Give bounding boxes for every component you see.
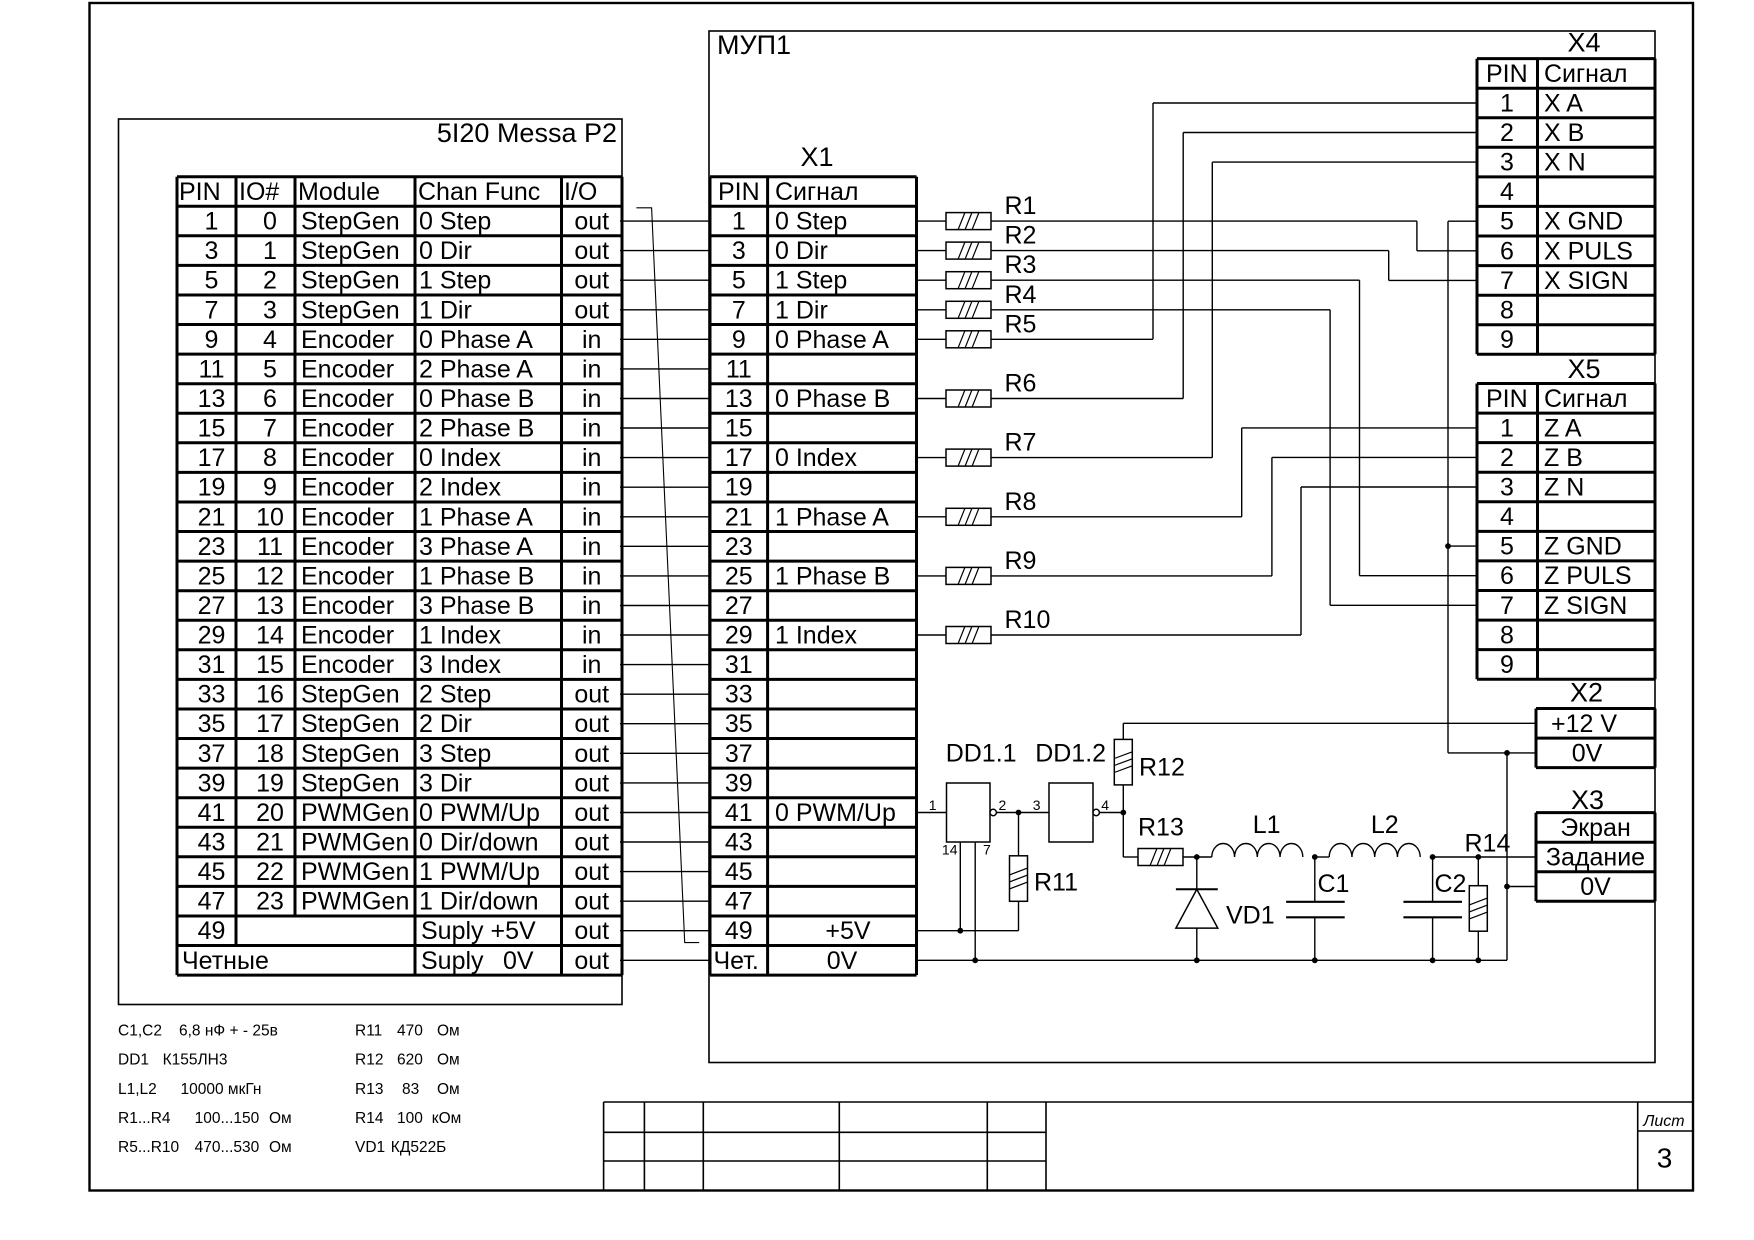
svg-text:27: 27 bbox=[198, 592, 226, 620]
svg-text:StepGen: StepGen bbox=[301, 681, 400, 709]
svg-text:41: 41 bbox=[198, 799, 226, 827]
svg-text:X5: X5 bbox=[1567, 354, 1600, 384]
svg-text:PWMGen: PWMGen bbox=[301, 829, 409, 857]
svg-text:StepGen: StepGen bbox=[301, 710, 400, 738]
svg-text:Ом: Ом bbox=[437, 1052, 460, 1069]
svg-text:PIN: PIN bbox=[179, 178, 221, 206]
svg-text:out: out bbox=[574, 710, 609, 738]
svg-text:I/O: I/O bbox=[564, 178, 597, 206]
svg-text:PIN: PIN bbox=[718, 178, 760, 206]
svg-text:X3: X3 bbox=[1571, 785, 1604, 815]
svg-text:10000 мкГн: 10000 мкГн bbox=[181, 1081, 262, 1098]
svg-text:14: 14 bbox=[942, 842, 958, 858]
svg-text:out: out bbox=[574, 769, 609, 797]
svg-text:R6: R6 bbox=[1005, 370, 1037, 398]
svg-text:C2: C2 bbox=[1435, 870, 1467, 898]
svg-text:StepGen: StepGen bbox=[301, 237, 400, 265]
svg-text:1: 1 bbox=[205, 208, 219, 236]
svg-text:3 Phase A: 3 Phase A bbox=[419, 533, 533, 561]
svg-text:17: 17 bbox=[725, 444, 753, 472]
svg-text:in: in bbox=[582, 385, 601, 413]
svg-text:0 Dir: 0 Dir bbox=[775, 237, 828, 265]
svg-text:out: out bbox=[574, 947, 609, 975]
svg-text:Encoder: Encoder bbox=[301, 444, 394, 472]
svg-text:Z N: Z N bbox=[1544, 474, 1584, 502]
svg-text:PIN: PIN bbox=[1486, 385, 1528, 413]
svg-text:2 Phase B: 2 Phase B bbox=[419, 415, 534, 443]
svg-text:PWMGen: PWMGen bbox=[301, 799, 409, 827]
svg-text:17: 17 bbox=[256, 710, 284, 738]
svg-text:X SIGN: X SIGN bbox=[1544, 267, 1629, 295]
svg-text:L2: L2 bbox=[1371, 811, 1399, 839]
svg-text:in: in bbox=[582, 355, 601, 383]
svg-text:2 Phase A: 2 Phase A bbox=[419, 355, 533, 383]
svg-text:out: out bbox=[574, 888, 609, 916]
svg-text:DD1.1: DD1.1 bbox=[946, 740, 1017, 768]
svg-text:0 Index: 0 Index bbox=[419, 444, 502, 472]
svg-text:19: 19 bbox=[256, 769, 284, 797]
svg-text:37: 37 bbox=[725, 740, 753, 768]
svg-text:in: in bbox=[582, 503, 601, 531]
svg-text:22: 22 bbox=[256, 858, 284, 886]
svg-text:4: 4 bbox=[1101, 797, 1109, 813]
svg-text:21: 21 bbox=[198, 503, 226, 531]
svg-text:Ом: Ом bbox=[269, 1139, 292, 1156]
svg-text:Encoder: Encoder bbox=[301, 562, 394, 590]
svg-text:L1: L1 bbox=[1253, 811, 1281, 839]
svg-text:39: 39 bbox=[725, 769, 753, 797]
svg-text:15: 15 bbox=[198, 415, 226, 443]
svg-text:2: 2 bbox=[999, 797, 1007, 813]
svg-text:R13: R13 bbox=[1138, 814, 1184, 842]
svg-text:Encoder: Encoder bbox=[301, 592, 394, 620]
svg-text:DD1: DD1 bbox=[118, 1052, 149, 1069]
svg-text:21: 21 bbox=[725, 503, 753, 531]
svg-text:R7: R7 bbox=[1005, 429, 1037, 457]
svg-text:2: 2 bbox=[1500, 119, 1514, 147]
svg-text:in: in bbox=[582, 592, 601, 620]
svg-text:StepGen: StepGen bbox=[301, 296, 400, 324]
svg-text:1 PWM/Up: 1 PWM/Up bbox=[419, 858, 540, 886]
svg-text:33: 33 bbox=[725, 681, 753, 709]
svg-text:R5: R5 bbox=[1005, 310, 1037, 338]
svg-text:PWMGen: PWMGen bbox=[301, 888, 409, 916]
svg-text:16: 16 bbox=[256, 681, 284, 709]
svg-text:0 Phase B: 0 Phase B bbox=[419, 385, 534, 413]
svg-text:out: out bbox=[574, 858, 609, 886]
svg-text:9: 9 bbox=[732, 326, 746, 354]
svg-text:Suply: Suply bbox=[421, 947, 484, 975]
svg-text:X PULS: X PULS bbox=[1544, 237, 1633, 265]
svg-text:out: out bbox=[574, 267, 609, 295]
svg-text:PIN: PIN bbox=[1486, 60, 1528, 88]
svg-text:0 Dir: 0 Dir bbox=[419, 237, 472, 265]
svg-text:VD1: VD1 bbox=[355, 1139, 385, 1156]
svg-text:13: 13 bbox=[725, 385, 753, 413]
svg-text:Module: Module bbox=[298, 178, 380, 206]
svg-text:0 Step: 0 Step bbox=[419, 208, 491, 236]
svg-text:11: 11 bbox=[726, 355, 752, 383]
svg-text:Z SIGN: Z SIGN bbox=[1544, 592, 1627, 620]
svg-text:10: 10 bbox=[256, 503, 284, 531]
svg-text:R11: R11 bbox=[355, 1023, 382, 1040]
svg-text:45: 45 bbox=[198, 858, 226, 886]
svg-text:Encoder: Encoder bbox=[301, 385, 394, 413]
svg-text:X B: X B bbox=[1544, 119, 1584, 147]
svg-text:9: 9 bbox=[205, 326, 219, 354]
svg-text:3 Dir: 3 Dir bbox=[419, 769, 472, 797]
svg-text:in: in bbox=[582, 326, 601, 354]
svg-text:R1: R1 bbox=[1005, 192, 1037, 220]
svg-text:470: 470 bbox=[397, 1023, 423, 1040]
svg-text:3: 3 bbox=[1500, 149, 1514, 177]
svg-text:in: in bbox=[582, 622, 601, 650]
svg-text:100...150: 100...150 bbox=[195, 1110, 260, 1127]
svg-text:R14: R14 bbox=[355, 1110, 384, 1127]
svg-text:StepGen: StepGen bbox=[301, 208, 400, 236]
svg-text:МУП1: МУП1 bbox=[717, 30, 791, 60]
svg-text:Z PULS: Z PULS bbox=[1544, 562, 1632, 590]
svg-text:0 PWM/Up: 0 PWM/Up bbox=[775, 799, 896, 827]
svg-text:11: 11 bbox=[199, 355, 225, 383]
svg-text:3: 3 bbox=[263, 296, 277, 324]
svg-text:3 Step: 3 Step bbox=[419, 740, 491, 768]
svg-text:2: 2 bbox=[263, 267, 277, 295]
svg-text:Encoder: Encoder bbox=[301, 355, 394, 383]
svg-text:31: 31 bbox=[198, 651, 226, 679]
svg-text:Encoder: Encoder bbox=[301, 474, 394, 502]
svg-text:R8: R8 bbox=[1005, 488, 1037, 516]
svg-text:Сигнал: Сигнал bbox=[1544, 60, 1627, 88]
svg-text:0 Phase B: 0 Phase B bbox=[775, 385, 890, 413]
svg-text:41: 41 bbox=[725, 799, 753, 827]
svg-text:0V: 0V bbox=[1572, 739, 1603, 767]
svg-text:5: 5 bbox=[205, 267, 219, 295]
svg-text:1: 1 bbox=[263, 237, 277, 265]
svg-text:PWMGen: PWMGen bbox=[301, 858, 409, 886]
svg-text:470...530: 470...530 bbox=[195, 1139, 260, 1156]
svg-text:Encoder: Encoder bbox=[301, 533, 394, 561]
svg-text:9: 9 bbox=[1500, 326, 1514, 354]
svg-text:2: 2 bbox=[1500, 444, 1514, 472]
svg-text:18: 18 bbox=[256, 740, 284, 768]
svg-text:11: 11 bbox=[257, 533, 283, 561]
svg-text:3: 3 bbox=[1033, 797, 1041, 813]
svg-text:1 Phase A: 1 Phase A bbox=[419, 503, 533, 531]
svg-text:in: in bbox=[582, 415, 601, 443]
svg-text:29: 29 bbox=[198, 622, 226, 650]
svg-text:19: 19 bbox=[725, 474, 753, 502]
svg-text:Encoder: Encoder bbox=[301, 326, 394, 354]
svg-text:Ом: Ом bbox=[437, 1081, 460, 1098]
svg-text:Encoder: Encoder bbox=[301, 503, 394, 531]
svg-text:0: 0 bbox=[263, 208, 277, 236]
svg-text:9: 9 bbox=[1500, 651, 1514, 679]
svg-text:9: 9 bbox=[263, 474, 277, 502]
svg-text:1 Dir/down: 1 Dir/down bbox=[419, 888, 539, 916]
svg-text:Чет.: Чет. bbox=[714, 947, 759, 975]
svg-text:in: in bbox=[582, 533, 601, 561]
svg-text:14: 14 bbox=[256, 622, 284, 650]
svg-text:C1,C2: C1,C2 bbox=[118, 1023, 162, 1040]
svg-text:0 Index: 0 Index bbox=[775, 444, 858, 472]
svg-text:in: in bbox=[582, 474, 601, 502]
svg-text:R12: R12 bbox=[355, 1052, 383, 1069]
svg-text:17: 17 bbox=[198, 444, 226, 472]
svg-text:VD1: VD1 bbox=[1226, 902, 1275, 930]
svg-text:IO#: IO# bbox=[239, 178, 279, 206]
svg-text:1: 1 bbox=[1500, 414, 1514, 442]
svg-text:1 Phase B: 1 Phase B bbox=[419, 562, 534, 590]
svg-text:31: 31 bbox=[725, 651, 753, 679]
svg-text:4: 4 bbox=[263, 326, 277, 354]
svg-text:21: 21 bbox=[256, 829, 284, 857]
svg-text:19: 19 bbox=[198, 474, 226, 502]
svg-text:23: 23 bbox=[725, 533, 753, 561]
svg-text:X N: X N bbox=[1544, 149, 1586, 177]
svg-text:0 Phase A: 0 Phase A bbox=[775, 326, 889, 354]
svg-text:3: 3 bbox=[1500, 474, 1514, 502]
svg-text:6: 6 bbox=[1500, 562, 1514, 590]
svg-text:7: 7 bbox=[205, 296, 219, 324]
svg-text:7: 7 bbox=[983, 842, 991, 858]
svg-text:1 Step: 1 Step bbox=[775, 267, 847, 295]
svg-text:R11: R11 bbox=[1034, 869, 1078, 897]
svg-text:Ом: Ом bbox=[269, 1110, 292, 1127]
svg-text:Encoder: Encoder bbox=[301, 415, 394, 443]
svg-text:1 Dir: 1 Dir bbox=[775, 296, 828, 324]
svg-text:Сигнал: Сигнал bbox=[775, 178, 858, 206]
svg-text:5: 5 bbox=[1500, 208, 1514, 236]
svg-text:49: 49 bbox=[725, 917, 753, 945]
svg-text:23: 23 bbox=[256, 888, 284, 916]
svg-text:out: out bbox=[574, 829, 609, 857]
svg-text:2 Step: 2 Step bbox=[419, 681, 491, 709]
svg-text:Экран: Экран bbox=[1560, 814, 1631, 842]
svg-text:0V: 0V bbox=[1580, 873, 1611, 901]
svg-text:15: 15 bbox=[725, 415, 753, 443]
svg-text:R1...R4: R1...R4 bbox=[118, 1110, 171, 1127]
svg-text:+12 V: +12 V bbox=[1551, 710, 1617, 738]
svg-text:7: 7 bbox=[263, 415, 277, 443]
svg-text:7: 7 bbox=[1500, 592, 1514, 620]
svg-text:out: out bbox=[574, 740, 609, 768]
svg-text:out: out bbox=[574, 296, 609, 324]
svg-text:45: 45 bbox=[725, 858, 753, 886]
svg-text:R14: R14 bbox=[1465, 830, 1511, 858]
svg-text:13: 13 bbox=[198, 385, 226, 413]
svg-text:1 Index: 1 Index bbox=[775, 622, 858, 650]
svg-text:12: 12 bbox=[256, 562, 284, 590]
svg-text:out: out bbox=[574, 208, 609, 236]
svg-text:1 Index: 1 Index bbox=[419, 622, 502, 650]
svg-text:47: 47 bbox=[198, 888, 226, 916]
svg-text:5: 5 bbox=[1500, 533, 1514, 561]
svg-text:5I20 Messa P2: 5I20 Messa P2 bbox=[437, 118, 617, 148]
svg-text:in: in bbox=[582, 562, 601, 590]
svg-text:23: 23 bbox=[198, 533, 226, 561]
svg-text:К155ЛН3: К155ЛН3 bbox=[163, 1052, 228, 1069]
svg-text:R5...R10: R5...R10 bbox=[118, 1139, 180, 1156]
svg-text:100: 100 bbox=[397, 1110, 423, 1127]
svg-text:13: 13 bbox=[256, 592, 284, 620]
svg-text:R12: R12 bbox=[1139, 754, 1185, 782]
svg-text:2 Dir: 2 Dir bbox=[419, 710, 472, 738]
svg-text:3: 3 bbox=[205, 237, 219, 265]
svg-text:3 Index: 3 Index bbox=[419, 651, 502, 679]
svg-text:43: 43 bbox=[725, 829, 753, 857]
svg-text:3: 3 bbox=[1657, 1143, 1673, 1174]
svg-text:StepGen: StepGen bbox=[301, 267, 400, 295]
svg-text:3 Phase B: 3 Phase B bbox=[419, 592, 534, 620]
svg-text:R3: R3 bbox=[1005, 251, 1037, 279]
svg-text:8: 8 bbox=[263, 444, 277, 472]
svg-text:37: 37 bbox=[198, 740, 226, 768]
svg-text:Ом: Ом bbox=[437, 1023, 460, 1040]
svg-text:47: 47 bbox=[725, 888, 753, 916]
svg-text:1 Dir: 1 Dir bbox=[419, 296, 472, 324]
svg-text:R2: R2 bbox=[1005, 222, 1037, 250]
svg-text:29: 29 bbox=[725, 622, 753, 650]
svg-text:6: 6 bbox=[263, 385, 277, 413]
svg-text:Encoder: Encoder bbox=[301, 622, 394, 650]
svg-text:6: 6 bbox=[1500, 237, 1514, 265]
svg-text:in: in bbox=[582, 651, 601, 679]
svg-text:1: 1 bbox=[1500, 90, 1514, 118]
svg-text:R10: R10 bbox=[1005, 606, 1051, 634]
svg-text:X4: X4 bbox=[1567, 28, 1600, 58]
svg-text:StepGen: StepGen bbox=[301, 740, 400, 768]
svg-text:8: 8 bbox=[1500, 621, 1514, 649]
svg-text:Z B: Z B bbox=[1544, 444, 1583, 472]
svg-text:2 Index: 2 Index bbox=[419, 474, 502, 502]
svg-text:R13: R13 bbox=[355, 1081, 383, 1098]
svg-text:Chan Func: Chan Func bbox=[418, 178, 540, 206]
svg-text:5: 5 bbox=[732, 267, 746, 295]
svg-text:Z GND: Z GND bbox=[1544, 533, 1622, 561]
svg-text:1 Phase A: 1 Phase A bbox=[775, 503, 889, 531]
svg-text:Сигнал: Сигнал bbox=[1544, 385, 1627, 413]
svg-text:620: 620 bbox=[397, 1052, 423, 1069]
svg-text:25: 25 bbox=[725, 562, 753, 590]
svg-text:1: 1 bbox=[929, 797, 937, 813]
svg-text:83: 83 bbox=[402, 1081, 419, 1098]
svg-text:DD1.2: DD1.2 bbox=[1035, 740, 1106, 768]
svg-text:6,8 нФ + - 25в: 6,8 нФ + - 25в bbox=[179, 1023, 278, 1040]
svg-text:3: 3 bbox=[732, 237, 746, 265]
svg-text:15: 15 bbox=[256, 651, 284, 679]
svg-text:R4: R4 bbox=[1005, 281, 1037, 309]
svg-text:49: 49 bbox=[198, 917, 226, 945]
svg-text:27: 27 bbox=[725, 592, 753, 620]
svg-text:0 Phase A: 0 Phase A bbox=[419, 326, 533, 354]
svg-text:1 Phase B: 1 Phase B bbox=[775, 562, 890, 590]
svg-text:Suply +5V: Suply +5V bbox=[421, 917, 536, 945]
svg-text:39: 39 bbox=[198, 769, 226, 797]
svg-text:Encoder: Encoder bbox=[301, 651, 394, 679]
svg-text:out: out bbox=[574, 917, 609, 945]
svg-text:0V: 0V bbox=[503, 947, 534, 975]
svg-text:5: 5 bbox=[263, 355, 277, 383]
svg-text:X2: X2 bbox=[1570, 678, 1603, 708]
svg-text:Задание: Задание bbox=[1546, 844, 1645, 872]
svg-text:Четные: Четные bbox=[182, 947, 269, 975]
svg-text:0V: 0V bbox=[827, 947, 858, 975]
svg-text:Z A: Z A bbox=[1544, 414, 1582, 442]
svg-text:кОм: кОм bbox=[432, 1110, 462, 1127]
svg-text:out: out bbox=[574, 799, 609, 827]
svg-text:1: 1 bbox=[732, 208, 746, 236]
svg-text:+5V: +5V bbox=[825, 917, 871, 945]
svg-text:35: 35 bbox=[198, 710, 226, 738]
svg-text:0 Dir/down: 0 Dir/down bbox=[419, 829, 539, 857]
svg-text:X A: X A bbox=[1544, 90, 1583, 118]
svg-text:in: in bbox=[582, 444, 601, 472]
svg-text:1 Step: 1 Step bbox=[419, 267, 491, 295]
svg-text:0 PWM/Up: 0 PWM/Up bbox=[419, 799, 540, 827]
svg-text:Лист: Лист bbox=[1642, 1113, 1684, 1130]
svg-text:7: 7 bbox=[732, 296, 746, 324]
svg-text:C1: C1 bbox=[1318, 870, 1350, 898]
svg-text:7: 7 bbox=[1500, 267, 1514, 295]
svg-text:35: 35 bbox=[725, 710, 753, 738]
svg-text:R9: R9 bbox=[1005, 547, 1037, 575]
svg-text:25: 25 bbox=[198, 562, 226, 590]
svg-text:8: 8 bbox=[1500, 296, 1514, 324]
svg-text:4: 4 bbox=[1500, 503, 1514, 531]
svg-text:КД522Б: КД522Б bbox=[391, 1139, 447, 1156]
svg-text:out: out bbox=[574, 237, 609, 265]
svg-text:4: 4 bbox=[1500, 178, 1514, 206]
svg-text:X1: X1 bbox=[800, 142, 833, 172]
svg-text:out: out bbox=[574, 681, 609, 709]
svg-text:43: 43 bbox=[198, 829, 226, 857]
svg-text:StepGen: StepGen bbox=[301, 769, 400, 797]
svg-text:X GND: X GND bbox=[1544, 208, 1623, 236]
svg-text:0 Step: 0 Step bbox=[775, 208, 847, 236]
svg-text:33: 33 bbox=[198, 681, 226, 709]
svg-text:L1,L2: L1,L2 bbox=[118, 1081, 157, 1098]
svg-text:20: 20 bbox=[256, 799, 284, 827]
